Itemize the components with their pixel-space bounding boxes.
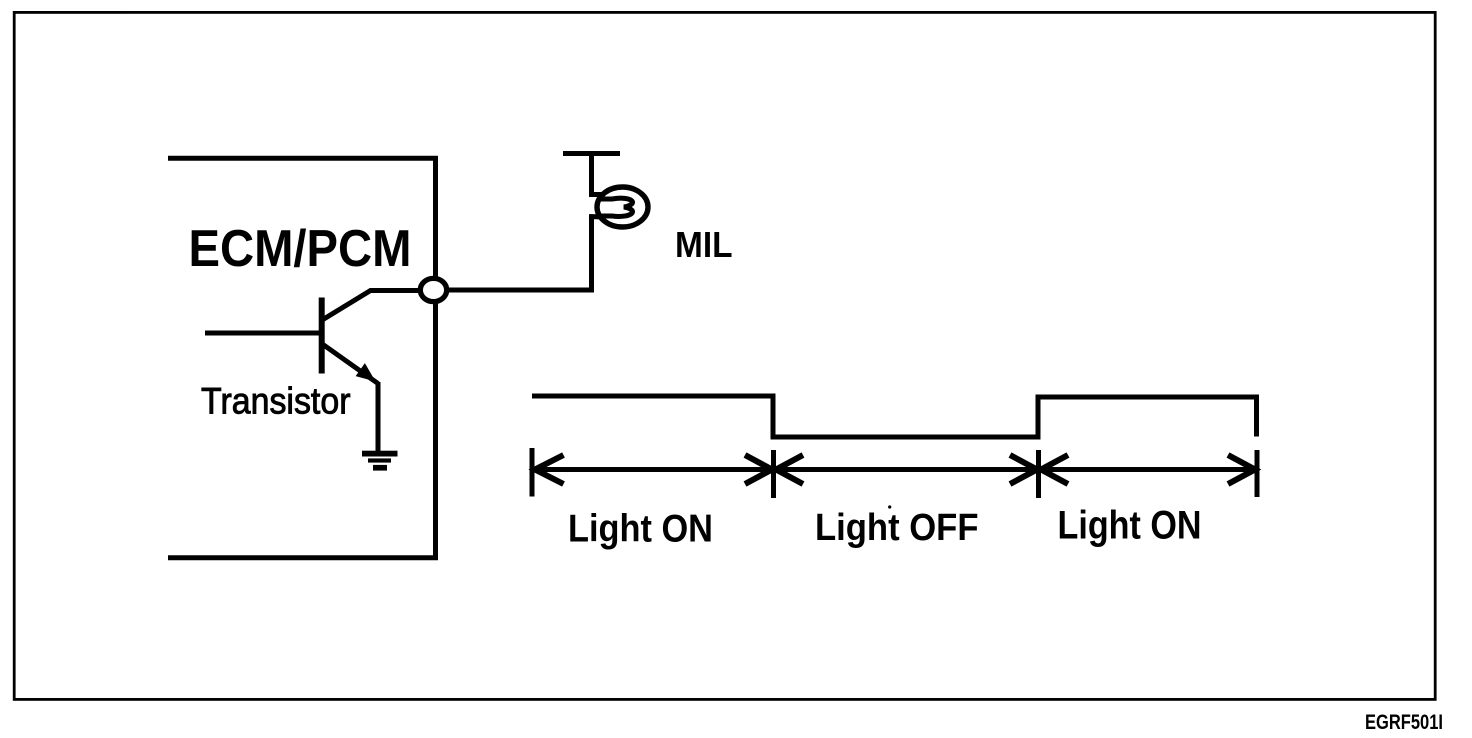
svg-text:Transistor: Transistor xyxy=(201,381,351,422)
svg-text:Light ON: Light ON xyxy=(568,507,713,550)
svg-text:MIL: MIL xyxy=(675,224,733,265)
tick mark 4 xyxy=(1255,450,1260,497)
arrowhead pair at tick 3 xyxy=(1010,455,1037,484)
base wire xyxy=(205,331,320,336)
lamp MIL (bulb with filament) xyxy=(589,187,648,227)
wire node to MIL lamp xyxy=(443,215,592,290)
transistor Q1 (NPN: base bar, collector, emitter with arrow) xyxy=(322,291,421,384)
tick mark 1 xyxy=(530,448,535,497)
ECM/PCM box (open-left outline) xyxy=(168,158,436,558)
ground xyxy=(362,451,398,471)
emitter wire to ground xyxy=(376,382,381,452)
svg-text:EGRF501I: EGRF501I xyxy=(1365,711,1443,734)
svg-text:Light OFF: Light OFF xyxy=(815,507,979,549)
svg-text:Light ON: Light ON xyxy=(1058,504,1202,548)
power rail bar (supply plate) xyxy=(563,151,620,156)
svg-text:ECM/PCM: ECM/PCM xyxy=(189,220,412,278)
tick mark 3 xyxy=(1036,450,1041,498)
stray speck xyxy=(888,505,891,508)
dimension line xyxy=(533,467,1256,472)
arrowhead pair at tick 2 xyxy=(745,455,772,484)
wire power rail to lamp xyxy=(589,154,594,196)
tick mark 2 xyxy=(771,450,776,498)
arrowhead right (tick 4, points right) xyxy=(1228,455,1255,484)
waveform trace (MIL on/off timing) xyxy=(532,396,1257,437)
arrowhead left (tick 1, points left) xyxy=(535,455,564,484)
node junction (open circle) xyxy=(420,278,446,301)
